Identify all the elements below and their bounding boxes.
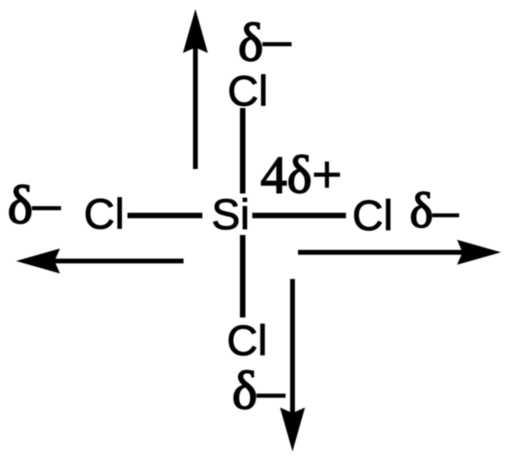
svg-text:δ–: δ– bbox=[410, 182, 460, 238]
svg-text:Cl: Cl bbox=[227, 317, 268, 365]
svg-text:δ–: δ– bbox=[8, 173, 61, 235]
svg-text:Cl: Cl bbox=[352, 192, 393, 240]
svg-text:4δ+: 4δ+ bbox=[261, 147, 342, 205]
svg-text:δ–: δ– bbox=[232, 361, 285, 421]
svg-text:Si: Si bbox=[212, 191, 250, 239]
svg-text:δ–: δ– bbox=[238, 9, 291, 73]
svg-text:Cl: Cl bbox=[84, 191, 125, 239]
svg-text:Cl: Cl bbox=[228, 68, 269, 116]
